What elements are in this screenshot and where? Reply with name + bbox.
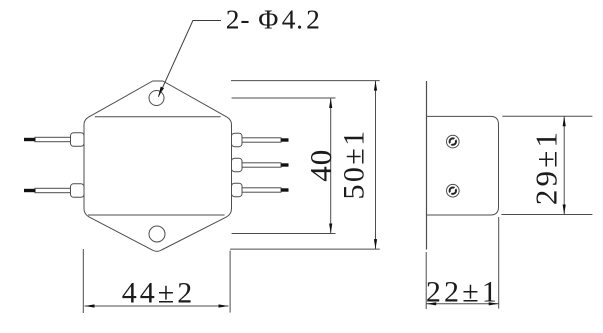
right pin 2 tip (281, 163, 289, 166)
extension line right for dim 22 (498, 217, 500, 309)
front view body outline with top and bottom mounting tabs (84, 81, 232, 251)
svg-text:2: 2 (306, 3, 320, 34)
leader arrowhead (158, 87, 164, 97)
side view body (427, 116, 499, 215)
extension line bottom for dim 40 (232, 233, 336, 235)
arrowheads dim 50 (374, 81, 377, 91)
left pin 1 tip (24, 138, 36, 141)
right pin 1 ferrule (232, 133, 243, 147)
dimension line 40 (330, 98, 332, 234)
left pin 2 lead (35, 188, 71, 192)
extension line bottom for dim 29 (501, 214, 592, 216)
extension line top for dim 29 (502, 115, 592, 117)
right pin 3 tip (281, 188, 289, 191)
extension line bottom for dim 50 (230, 248, 380, 250)
front body top edge chord (95, 116, 221, 118)
svg-text:2: 2 (226, 3, 240, 34)
dimension line 44 (85, 305, 229, 307)
right pin 2 lead (242, 163, 281, 167)
front body bottom edge chord (88, 214, 225, 216)
svg-text:4: 4 (282, 3, 296, 34)
screw terminal 1 (447, 135, 460, 148)
bottom mounting hole (149, 226, 165, 242)
extension line left for dim 44 (82, 249, 84, 313)
left pin 1 lead (35, 137, 71, 141)
svg-text:50±1: 50±1 (338, 128, 371, 199)
dimension line 50 (375, 81, 377, 250)
right pin 2 ferrule (232, 158, 243, 172)
extension line right for dim 44 (229, 251, 231, 313)
extension line top for dim 40 (232, 97, 336, 99)
svg-text:40: 40 (303, 149, 338, 182)
svg-text:-: - (240, 3, 249, 34)
right pin 1 lead (242, 138, 281, 142)
right pin 1 tip (281, 138, 289, 141)
dimension line 22 (426, 303, 499, 305)
right pin 3 lead (242, 188, 281, 192)
left pin 2 tip (24, 189, 36, 192)
right pin 3 ferrule (232, 183, 243, 197)
screw terminal 2 (447, 184, 460, 197)
svg-text:22±1: 22±1 (426, 276, 500, 309)
arrowheads dim 29 (563, 116, 566, 126)
arrowheads dim 22 (426, 302, 436, 305)
left pin 2 ferrule (71, 184, 85, 198)
extension line top for dim 50 (231, 80, 380, 82)
arrowheads dim 40 (329, 98, 332, 108)
svg-text:44±2: 44±2 (122, 277, 195, 310)
leader line for hole callout (158, 21, 221, 97)
svg-text:.: . (296, 3, 303, 34)
svg-text:29±1: 29±1 (529, 129, 564, 205)
arrowheads dim 44 (85, 304, 95, 307)
side view bracket flange (edge-on) (426, 81, 428, 250)
callout text 2-PHI4.2 (226, 3, 320, 34)
dimension line 29 (563, 116, 565, 214)
left pin 1 ferrule (35, 133, 281, 198)
svg-text:Φ: Φ (258, 3, 278, 34)
extension line left for dim 22 (425, 252, 427, 309)
top mounting hole (149, 91, 164, 106)
